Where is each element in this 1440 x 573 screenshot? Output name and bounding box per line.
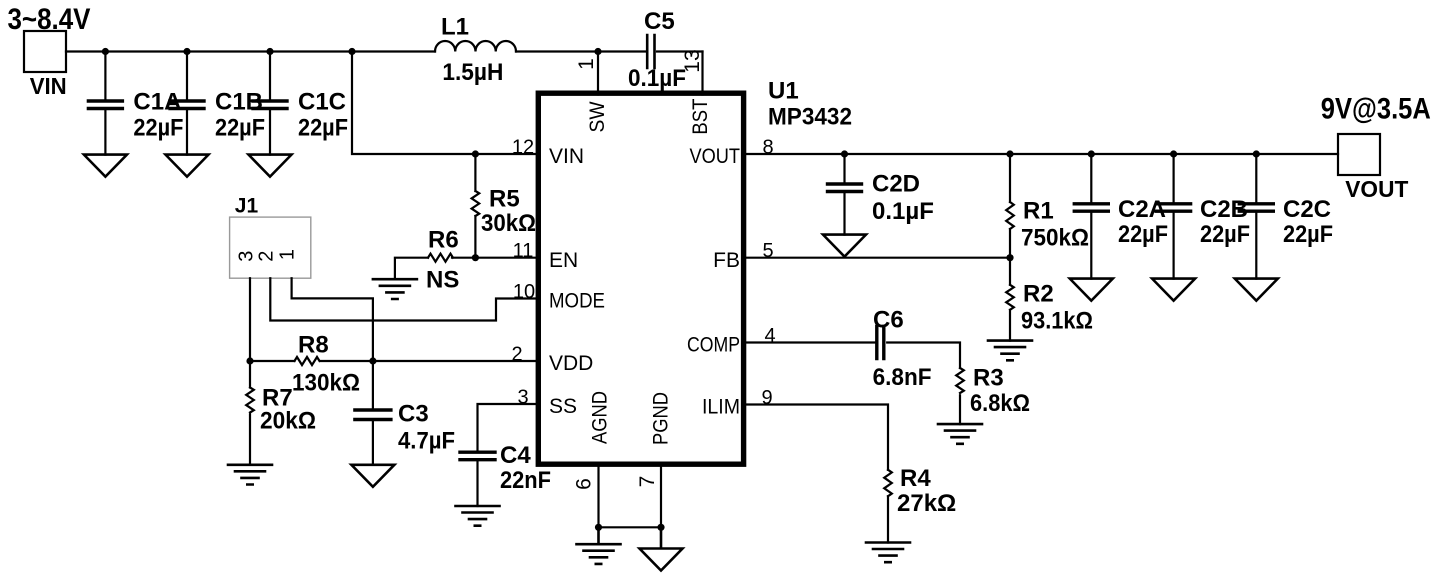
capacitor C2B bbox=[1157, 154, 1250, 279]
ground R6 earth bbox=[373, 279, 417, 299]
svg-text:C2C: C2C bbox=[1283, 196, 1331, 223]
svg-text:12: 12 bbox=[512, 137, 534, 159]
svg-text:0.1µF: 0.1µF bbox=[628, 65, 686, 92]
capacitor C2C bbox=[1239, 154, 1333, 279]
ground C4 earth bbox=[456, 506, 500, 526]
svg-text:750kΩ: 750kΩ bbox=[1021, 225, 1089, 252]
capacitor C1A bbox=[88, 52, 183, 155]
wire input rail bbox=[66, 50, 703, 52]
ground R4 earth bbox=[866, 543, 910, 563]
svg-text:BST: BST bbox=[689, 98, 712, 134]
svg-text:VIN: VIN bbox=[30, 73, 67, 99]
svg-text:20kΩ: 20kΩ bbox=[260, 408, 316, 435]
svg-text:22µF: 22µF bbox=[1200, 221, 1250, 248]
resistor R5 bbox=[472, 154, 536, 258]
svg-text:9V@3.5A: 9V@3.5A bbox=[1321, 92, 1431, 125]
svg-text:MP3432: MP3432 bbox=[768, 104, 852, 131]
svg-text:3: 3 bbox=[235, 251, 257, 262]
resistor R3 bbox=[956, 365, 1030, 425]
capacitor C1C bbox=[253, 52, 348, 155]
resistor R4 bbox=[884, 465, 956, 543]
svg-text:R6: R6 bbox=[428, 227, 459, 254]
svg-text:VIN: VIN bbox=[549, 145, 584, 168]
svg-text:2: 2 bbox=[511, 344, 522, 366]
svg-text:ILIM: ILIM bbox=[702, 396, 740, 419]
wire SS pin 3 bbox=[478, 387, 539, 451]
svg-text:AGND: AGND bbox=[588, 391, 611, 444]
svg-text:27kΩ: 27kΩ bbox=[897, 490, 956, 517]
svg-text:0.1µF: 0.1µF bbox=[872, 198, 934, 225]
ground AGND earth bbox=[577, 527, 621, 564]
ground C3 bbox=[351, 465, 394, 487]
ground C2A bbox=[1070, 279, 1113, 301]
svg-text:9: 9 bbox=[761, 387, 772, 409]
svg-text:13: 13 bbox=[681, 49, 704, 72]
svg-text:COMP: COMP bbox=[687, 334, 740, 357]
svg-text:130kΩ: 130kΩ bbox=[292, 370, 360, 397]
capacitor C3 bbox=[355, 361, 455, 465]
capacitor C5 bbox=[628, 8, 686, 92]
svg-text:22µF: 22µF bbox=[215, 115, 265, 142]
ground R3 earth bbox=[938, 424, 982, 444]
svg-text:C2D: C2D bbox=[872, 171, 920, 198]
wire J1 pin1 to VDD net bbox=[292, 278, 373, 361]
svg-text:11: 11 bbox=[513, 240, 534, 262]
svg-text:C6: C6 bbox=[873, 306, 904, 333]
capacitor C1B bbox=[170, 52, 265, 155]
svg-text:2: 2 bbox=[255, 251, 277, 262]
wire COMP pin 4 bbox=[743, 325, 961, 368]
wire VDD pin 2 bbox=[246, 344, 538, 366]
svg-text:6.8kΩ: 6.8kΩ bbox=[970, 390, 1030, 417]
svg-text:J1: J1 bbox=[235, 195, 259, 218]
svg-text:C4: C4 bbox=[500, 442, 531, 469]
ground R7 earth bbox=[228, 465, 272, 485]
svg-text:30kΩ: 30kΩ bbox=[481, 210, 536, 237]
svg-text:L1: L1 bbox=[441, 14, 469, 41]
svg-text:10: 10 bbox=[513, 281, 535, 303]
IC U1 MP3432 bbox=[538, 77, 852, 464]
wire pin 13 BST stub bbox=[681, 49, 704, 94]
svg-text:SW: SW bbox=[586, 101, 609, 132]
wire AGND pin 6 bbox=[573, 465, 599, 528]
svg-text:SS: SS bbox=[549, 395, 577, 418]
svg-text:C5: C5 bbox=[644, 8, 675, 35]
wire pin 1 SW stub bbox=[575, 52, 598, 95]
svg-text:22µF: 22µF bbox=[133, 115, 183, 142]
capacitor C6 bbox=[873, 306, 932, 391]
svg-text:R1: R1 bbox=[1023, 198, 1054, 225]
svg-text:22µF: 22µF bbox=[298, 115, 348, 142]
wire J1 pin3 down bbox=[249, 278, 251, 361]
svg-text:4.7µF: 4.7µF bbox=[398, 428, 455, 455]
wire FB pin 5 bbox=[743, 240, 1014, 262]
svg-text:FB: FB bbox=[713, 249, 740, 272]
svg-text:EN: EN bbox=[549, 249, 578, 272]
wire PGND pin 7 bbox=[636, 465, 661, 528]
wire ILIM pin 9 bbox=[743, 387, 889, 470]
capacitor C4 bbox=[460, 442, 551, 506]
svg-text:1: 1 bbox=[575, 58, 598, 70]
svg-text:R2: R2 bbox=[1023, 281, 1054, 308]
resistor R8 bbox=[250, 332, 373, 397]
svg-text:4: 4 bbox=[764, 325, 775, 347]
ground C1C bbox=[249, 155, 292, 177]
svg-text:22nF: 22nF bbox=[500, 467, 551, 494]
svg-text:3: 3 bbox=[517, 387, 528, 409]
resistor R2 bbox=[1006, 258, 1093, 341]
svg-text:C1C: C1C bbox=[298, 88, 346, 115]
ground PGND bbox=[640, 527, 683, 570]
port VOUT box bbox=[1321, 92, 1431, 202]
capacitor C2D bbox=[828, 154, 934, 235]
resistor R6 bbox=[395, 227, 476, 294]
ground C1A bbox=[84, 155, 127, 177]
svg-text:VOUT: VOUT bbox=[1345, 176, 1408, 202]
svg-text:C3: C3 bbox=[398, 401, 429, 428]
ground C2C bbox=[1235, 279, 1278, 301]
svg-text:1: 1 bbox=[277, 249, 299, 260]
svg-text:1.5µH: 1.5µH bbox=[442, 59, 503, 86]
svg-text:PGND: PGND bbox=[650, 392, 673, 445]
svg-text:VOUT: VOUT bbox=[690, 145, 741, 168]
svg-text:R8: R8 bbox=[298, 332, 329, 359]
wire pins 6-7 tie bbox=[595, 524, 665, 531]
ground R2 earth bbox=[988, 341, 1032, 361]
svg-text:6.8nF: 6.8nF bbox=[873, 364, 932, 391]
svg-text:NS: NS bbox=[426, 267, 459, 294]
svg-text:VDD: VDD bbox=[549, 352, 593, 375]
svg-text:U1: U1 bbox=[768, 77, 799, 104]
resistor R7 bbox=[246, 361, 316, 465]
svg-text:3~8.4V: 3~8.4V bbox=[8, 3, 91, 36]
capacitor C2A bbox=[1074, 154, 1168, 279]
inductor L1 bbox=[435, 14, 516, 87]
svg-text:5: 5 bbox=[762, 240, 773, 262]
svg-text:93.1kΩ: 93.1kΩ bbox=[1021, 308, 1093, 335]
wire EN pin 11 bbox=[472, 240, 538, 262]
ground C2B bbox=[1152, 279, 1195, 301]
svg-text:R4: R4 bbox=[900, 465, 931, 492]
svg-text:7: 7 bbox=[636, 476, 659, 488]
svg-text:6: 6 bbox=[573, 478, 596, 490]
wire VOUT pin 8 rail bbox=[743, 137, 1339, 159]
port VIN box bbox=[8, 3, 91, 99]
node input junctions bbox=[102, 48, 602, 55]
wire MODE pin 10 net bbox=[270, 278, 538, 320]
ground C2D bbox=[823, 235, 866, 257]
ground C1B bbox=[166, 155, 209, 177]
node output junctions bbox=[841, 150, 1260, 157]
svg-text:22µF: 22µF bbox=[1118, 221, 1168, 248]
resistor R1 bbox=[1006, 154, 1089, 258]
svg-text:8: 8 bbox=[762, 137, 773, 159]
svg-text:R3: R3 bbox=[973, 365, 1004, 392]
svg-text:R5: R5 bbox=[489, 185, 520, 212]
svg-text:22µF: 22µF bbox=[1283, 221, 1333, 248]
svg-text:MODE: MODE bbox=[549, 290, 605, 313]
wire VIN pin 12 bbox=[352, 52, 538, 159]
connector J1 bbox=[230, 195, 311, 279]
